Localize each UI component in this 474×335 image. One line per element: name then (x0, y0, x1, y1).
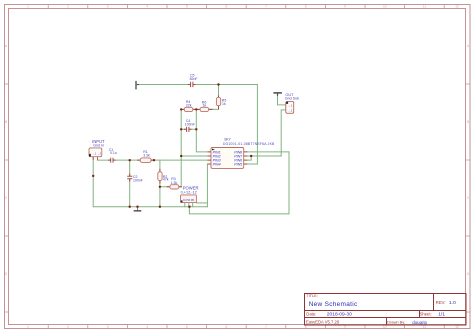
junction PIN7 tap (250, 155, 252, 157)
svg-text:Drawn By:: Drawn By: (387, 320, 405, 325)
U1 labels (223, 137, 275, 146)
svg-text:22k: 22k (186, 103, 192, 107)
resistor R2 (158, 172, 162, 181)
svg-text:REV:: REV: (436, 300, 446, 305)
junction R2 bottom (159, 206, 161, 208)
pin names (213, 150, 221, 166)
svg-text:0,+12,-12: 0,+12,-12 (181, 190, 197, 194)
svg-text:5: 5 (186, 5, 188, 9)
svg-text:1.0: 1.0 (449, 300, 456, 306)
junction R3 left (159, 186, 161, 188)
component pin leads (red) (108, 85, 219, 187)
svg-text:PIN6: PIN6 (234, 159, 242, 163)
svg-text:12: 12 (455, 5, 459, 9)
svg-text:100nF: 100nF (185, 122, 195, 126)
svg-text:9: 9 (344, 5, 346, 9)
wire PIN8 row (247, 151, 289, 153)
junction R4 right (195, 108, 197, 110)
junction R4 left (180, 108, 182, 110)
svg-text:1: 1 (27, 325, 29, 329)
svg-text:PIN3: PIN3 (213, 159, 221, 163)
svg-text:Gnd Sub: Gnd Sub (285, 96, 299, 100)
R3 labels (171, 177, 178, 185)
R2 labels (163, 175, 169, 182)
wire R4 row segment (181, 108, 213, 110)
svg-text:4: 4 (146, 5, 148, 9)
junction C4 left (180, 128, 182, 130)
wire R2 bottom to rail (159, 187, 161, 207)
svg-text:Sheet:: Sheet: (420, 312, 432, 317)
capacitor C2 plates (127, 176, 132, 179)
capacitor C1 plates (111, 158, 113, 163)
svg-text:→1: →1 (288, 104, 293, 108)
junction left rail (92, 175, 94, 177)
svg-text:PIN2: PIN2 (213, 155, 221, 159)
title block outline (305, 294, 467, 326)
connector J2 OUT (286, 101, 294, 113)
svg-text:PIN1: PIN1 (213, 150, 221, 154)
junction C2 top (129, 159, 131, 161)
svg-text:1.3k: 1.3k (171, 181, 178, 185)
ground GND3 bottom rail (134, 207, 142, 212)
svg-text:100nF: 100nF (133, 178, 143, 182)
svg-text:→2: →2 (288, 109, 293, 113)
svg-text:PIN5: PIN5 (234, 163, 242, 167)
resistor R5 (216, 97, 220, 105)
wire vertical from top bend down to PIN5 row (256, 85, 258, 165)
svg-text:Gnd In: Gnd In (93, 144, 104, 148)
wire PIN2 row (181, 155, 207, 157)
svg-text:PIN7: PIN7 (234, 155, 243, 159)
wire OUT pin1 to ground (278, 94, 286, 105)
svg-text:5: 5 (186, 325, 188, 329)
svg-text:PIN8: PIN8 (234, 150, 242, 154)
pin leads left (208, 152, 211, 164)
svg-text:New Schematic: New Schematic (309, 301, 358, 308)
svg-text:2: 2 (67, 325, 69, 329)
OUT labels (285, 93, 299, 100)
svg-text:PIN4: PIN4 (213, 163, 221, 167)
wire R5 top to junction (218, 85, 220, 98)
junction after R1 (153, 159, 155, 161)
IC U1 SKY (208, 148, 248, 169)
svg-text:11: 11 (423, 5, 427, 9)
svg-text:7: 7 (265, 325, 267, 329)
C2 labels (133, 175, 143, 183)
capacitor C4 plates (187, 127, 189, 132)
junction ground stem (136, 206, 138, 208)
C1 labels (109, 148, 117, 155)
wire PIN7 row to OUT pin2 vertical (247, 155, 281, 157)
resistor R4 (184, 107, 193, 111)
svg-text:11: 11 (423, 325, 427, 329)
junction rail drop (188, 206, 190, 208)
R6 labels (202, 100, 207, 107)
svg-text:8: 8 (305, 325, 307, 329)
svg-text:TITLE:: TITLE: (306, 293, 318, 298)
wire POWER pin stubs (185, 203, 193, 207)
ground GND2 at OUT (273, 92, 282, 96)
wire POWER right pin to PIN4 vertical (196, 202, 207, 204)
svg-text:Date:: Date: (306, 312, 316, 317)
wire PIN6 stub (247, 156, 251, 160)
junction C2 bottom (129, 206, 131, 208)
wire C1 to R1 to PIN3 (113, 159, 207, 161)
wire R2 branch vertical (159, 160, 161, 187)
frame row ticks left/right (4, 84, 471, 312)
capacitor C5 plates (191, 82, 193, 87)
svg-text:dougrip: dougrip (412, 320, 427, 325)
svg-text:10: 10 (383, 325, 387, 329)
wire PIN5 to vertical (247, 163, 257, 165)
module U2 POWER (181, 195, 197, 203)
svg-text:82nF: 82nF (190, 77, 198, 81)
R5 labels (222, 99, 227, 107)
wire bottom rail (93, 206, 207, 208)
svg-text:8: 8 (305, 5, 307, 9)
wire C2 branch vertical (129, 160, 131, 207)
resistor R1 (140, 158, 154, 163)
svg-text:4: 4 (146, 325, 148, 329)
wire right parallel rail to PIN1 (196, 109, 207, 151)
svg-text:±0 PW PR: ±0 PW PR (183, 199, 194, 202)
wire PIN4 vertical (206, 164, 208, 207)
svg-text:10: 10 (383, 5, 387, 9)
INPUT labels (92, 139, 105, 148)
svg-text:3.3k: 3.3k (143, 153, 150, 157)
svg-text:12: 12 (455, 325, 459, 329)
wire bottom return loop (189, 152, 289, 214)
connector J1 INPUT (89, 148, 102, 160)
svg-text:1k: 1k (203, 104, 207, 108)
svg-text:DG1001-01-08BT7NSF6A JKB: DG1001-01-08BT7NSF6A JKB (223, 142, 275, 146)
junction dots (92, 83, 252, 208)
junction at R5 top node (217, 83, 219, 85)
pin leads right (244, 152, 248, 164)
svg-text:B: B (467, 120, 469, 124)
wire left ground rail from INPUT pin1 (92, 156, 94, 206)
junction C4 right (195, 128, 197, 130)
svg-text:3: 3 (107, 325, 109, 329)
svg-text:9: 9 (344, 325, 346, 329)
svg-text:→1 →2: →1 →2 (92, 151, 101, 155)
svg-text:B: B (5, 120, 7, 124)
resistor R6 (200, 107, 209, 111)
ground GND1 top-left bar style (135, 81, 139, 90)
wire left parallel rail down (180, 109, 182, 186)
svg-text:6: 6 (226, 5, 228, 9)
C5 labels (190, 73, 198, 81)
wire R6 to R5 bottom bend (213, 106, 218, 110)
svg-text:EasyEDA V5.7.26: EasyEDA V5.7.26 (306, 320, 340, 325)
svg-text:1: 1 (27, 5, 29, 9)
svg-text:6: 6 (226, 325, 228, 329)
svg-text:0.1u: 0.1u (110, 151, 117, 155)
wire C4 row (181, 128, 196, 130)
svg-text:1/1: 1/1 (438, 312, 445, 318)
svg-text:SKY: SKY (224, 137, 231, 141)
C4 labels (185, 119, 195, 127)
wire R3 row (160, 186, 181, 188)
wire main input row: INPUT pin2 to C1 (97, 159, 110, 161)
svg-text:2018-09-30: 2018-09-30 (327, 312, 352, 318)
R1 labels (143, 150, 150, 157)
wire OUT pin2 vertical (281, 110, 286, 156)
svg-text:2: 2 (67, 5, 69, 9)
R4 labels (186, 100, 192, 107)
svg-text:7: 7 (265, 5, 267, 9)
svg-text:1k: 1k (222, 102, 226, 106)
POWER labels (181, 186, 199, 195)
wire top horizontal from GND bar to C5 to right bend (138, 84, 257, 86)
frame row letters (5, 44, 470, 276)
junction PIN2 tap (180, 155, 182, 157)
svg-text:3: 3 (107, 5, 109, 9)
resistor R3 (170, 185, 179, 189)
svg-text:47k: 47k (163, 178, 169, 182)
